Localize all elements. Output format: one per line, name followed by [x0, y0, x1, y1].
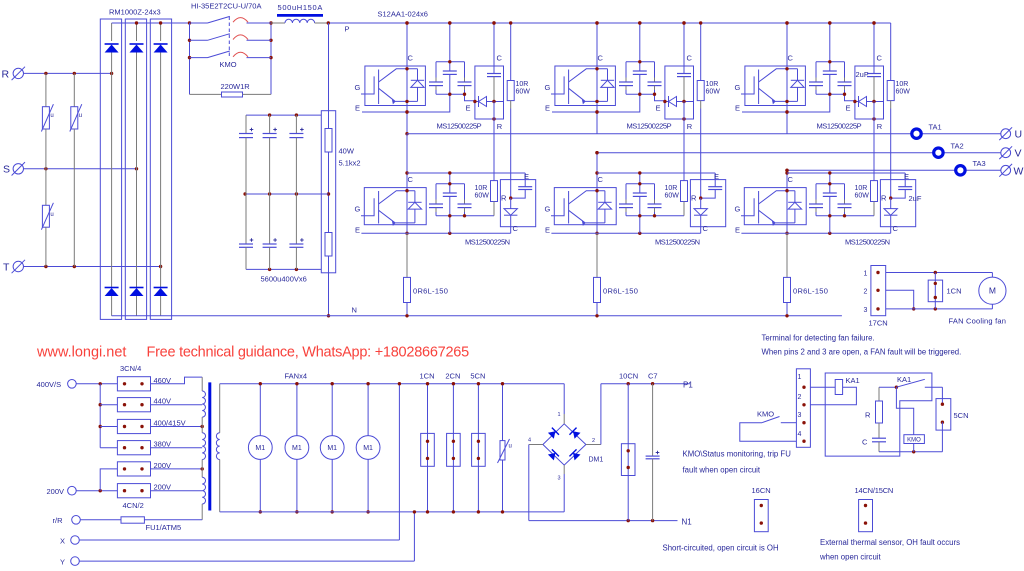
svg-text:C: C: [408, 54, 414, 63]
rectifier module D2 (RM1000Z-24): [125, 19, 146, 319]
svg-text:N1: N1: [682, 518, 693, 527]
tap connector 3CN row 380V: [117, 441, 150, 455]
capacitor C5 electrolytic lower 5600u400V: [269, 194, 271, 244]
svg-text:2: 2: [864, 288, 868, 295]
svg-text:C: C: [497, 54, 503, 63]
wire X riser: [398, 384, 400, 540]
wire 17CN pin2 jumper: [886, 290, 914, 309]
svg-text:5CN: 5CN: [954, 411, 969, 420]
svg-text:2CN: 2CN: [445, 372, 460, 381]
wire 440V tap: [151, 404, 203, 406]
wire fan bottom rail: [220, 511, 565, 513]
wire emitter rail lower cell U: [361, 232, 510, 234]
fan motor M1 number 3: [331, 384, 333, 436]
svg-text:T: T: [3, 262, 10, 274]
svg-text:3: 3: [864, 307, 868, 314]
status loop wire: [825, 373, 932, 456]
svg-text:1: 1: [798, 374, 802, 381]
wire RC bottom rail: [879, 451, 942, 453]
svg-text:M1: M1: [255, 445, 265, 452]
svg-text:E: E: [355, 226, 360, 235]
svg-text:1: 1: [864, 271, 868, 278]
varistor RU1 between R and S: [45, 73, 47, 106]
svg-text:E: E: [545, 104, 550, 113]
contactor KM0 right column wire: [270, 23, 272, 94]
svg-text:2: 2: [592, 438, 595, 444]
wire capacitor bank middle rail: [245, 193, 328, 195]
svg-text:External thermal sensor, OH fa: External thermal sensor, OH fault occurs: [820, 538, 960, 547]
svg-text:www.longi.net: www.longi.net: [36, 345, 126, 361]
bridge pin 1 wire: [563, 384, 565, 414]
RCD snubber module upper cell V: [665, 66, 694, 119]
terminal V: [1001, 148, 1011, 158]
transformer T1 primary winding: [201, 377, 203, 391]
wire R column cell U: [493, 102, 495, 181]
svg-text:HI-35E2T2CU-U/70A: HI-35E2T2CU-U/70A: [191, 2, 261, 11]
contactor KM0 pole 1: [190, 22, 208, 24]
wire T phase: [24, 266, 161, 268]
wire R column cell V: [683, 102, 685, 181]
svg-text:E: E: [355, 104, 360, 113]
balance resistor assembly 40W 5.1kx2: [321, 111, 335, 273]
resistor 0R6L-150 cell W: [786, 233, 788, 277]
varistor RU3 between S and T: [45, 169, 47, 206]
wire Y riser: [413, 512, 415, 561]
wire P1 rail: [601, 383, 690, 385]
svg-text:P1: P1: [683, 381, 693, 390]
svg-text:TA3: TA3: [973, 159, 986, 168]
svg-text:MS12500225N: MS12500225N: [465, 238, 510, 247]
svg-text:10R: 10R: [665, 185, 678, 192]
svg-text:C: C: [598, 175, 604, 184]
svg-text:C: C: [513, 224, 519, 233]
wire 200V tap upper: [151, 468, 203, 470]
svg-text:TA1: TA1: [929, 123, 942, 132]
wire 200V tap lower: [151, 490, 203, 492]
svg-text:N: N: [352, 306, 357, 315]
svg-text:60W: 60W: [665, 193, 680, 200]
svg-text:R: R: [881, 194, 887, 203]
wire rectifier top rail: [112, 22, 190, 24]
svg-text:10R: 10R: [855, 185, 868, 192]
resistor 220W1R precharge: [190, 93, 222, 95]
wire 17CN pin1 to fan: [886, 272, 993, 274]
svg-text:C7: C7: [648, 372, 658, 381]
svg-text:r/R: r/R: [53, 516, 64, 525]
svg-text:R: R: [2, 69, 10, 81]
wire 400/415V tap: [151, 426, 203, 428]
svg-text:60W: 60W: [475, 193, 490, 200]
connector 1CN: [934, 273, 936, 309]
resistor 10R 60W upper cell V: [700, 23, 702, 81]
svg-text:60W: 60W: [855, 193, 870, 200]
wire capacitor bank top rail: [246, 114, 321, 116]
svg-text:U: U: [1015, 129, 1023, 141]
svg-text:When pins 2 and 3 are open, a: When pins 2 and 3 are open, a FAN fault …: [762, 348, 962, 357]
wire emitter rail lower cell V: [551, 232, 700, 234]
relay coil KA1: [810, 386, 835, 388]
wire capacitor bank bottom rail: [246, 268, 321, 270]
svg-text:3: 3: [798, 412, 802, 419]
svg-text:R: R: [877, 122, 883, 131]
current transformer TA1: [912, 129, 921, 138]
svg-text:17CN: 17CN: [869, 319, 888, 328]
RCD snubber module lower cell U: [500, 180, 535, 227]
snubber capacitors upper cell U: [436, 61, 465, 63]
IGBT module Q2 upper MS12500225P (V phase): [555, 66, 616, 106]
rectifier module D1 (RM1000Z-24): [100, 19, 121, 319]
svg-text:X: X: [60, 537, 65, 546]
fuse FU1/ATM5: [80, 519, 121, 521]
varistor RU2 between R and T: [73, 73, 75, 106]
resistor 10R 60W lower cell W: [873, 119, 875, 181]
snubber capacitors lower cell V: [639, 173, 641, 193]
IGBT module Q6 lower MS12500225N (W phase): [744, 188, 806, 225]
svg-text:DM1: DM1: [589, 457, 604, 464]
wire R column cell W: [873, 102, 875, 181]
wire collector column lower Q5: [596, 153, 598, 234]
svg-text:10R: 10R: [475, 185, 488, 192]
svg-text:1CN: 1CN: [420, 372, 435, 381]
svg-text:E: E: [466, 104, 471, 113]
transformer T1 core: [208, 382, 211, 510]
terminal W: [1001, 165, 1011, 175]
svg-text:MS12500225N: MS12500225N: [845, 238, 890, 247]
svg-text:R: R: [687, 122, 693, 131]
current transformer TA3: [956, 166, 965, 175]
connector 4-pin status: [796, 369, 810, 448]
svg-text:MS12500225P: MS12500225P: [437, 122, 482, 131]
wire collector column upper Q2: [596, 23, 598, 134]
thermistor RT1: [502, 384, 504, 441]
svg-text:M1: M1: [327, 445, 337, 452]
svg-text:G: G: [355, 205, 361, 214]
bridge pin 2 wire: [586, 444, 601, 446]
svg-text:MS12500225P: MS12500225P: [627, 122, 672, 131]
contactor KM0 left column wire: [189, 23, 191, 94]
contactor KM0 pole 2: [190, 39, 208, 41]
svg-text:5CN: 5CN: [470, 372, 485, 381]
svg-text:Y: Y: [60, 558, 65, 567]
svg-text:C: C: [598, 54, 604, 63]
svg-text:u: u: [79, 113, 82, 119]
svg-text:M1: M1: [363, 445, 373, 452]
bridge pin 3 wire: [563, 465, 565, 474]
svg-text:E: E: [524, 172, 529, 181]
wire emitter rail lower cell W: [741, 232, 890, 234]
wire V phase rail: [597, 152, 1001, 154]
svg-text:4CN/2: 4CN/2: [123, 501, 144, 510]
wire U phase rail: [407, 133, 1001, 135]
svg-text:G: G: [545, 205, 551, 214]
svg-text:4: 4: [528, 438, 531, 444]
svg-text:E: E: [656, 104, 661, 113]
svg-text:40W: 40W: [339, 147, 355, 156]
wire collector rail lower cell U: [407, 172, 525, 174]
svg-text:2uF: 2uF: [909, 194, 922, 203]
svg-text:E: E: [714, 172, 719, 181]
svg-text:KA1: KA1: [897, 375, 911, 384]
RCD snubber module lower cell W: [880, 180, 915, 227]
svg-text:P: P: [345, 25, 350, 34]
svg-text:60W: 60W: [706, 89, 721, 96]
svg-text:FAN Cooling fan: FAN Cooling fan: [949, 317, 1007, 326]
IGBT module Q1 upper MS12500225P (U phase): [365, 66, 426, 106]
capacitor C1 electrolytic upper 5600u400V: [245, 115, 247, 133]
tap connector 3CN row 460V: [117, 377, 150, 391]
svg-text:0R6L-150: 0R6L-150: [793, 287, 828, 296]
terminal U: [1001, 129, 1011, 139]
wire 380V tap: [151, 447, 203, 449]
wire fan top rail: [220, 383, 565, 385]
connector 17CN: [871, 266, 886, 316]
wire collector rail lower cell W: [787, 172, 905, 174]
svg-text:R: R: [691, 194, 697, 203]
resistor 0R6L-150 cell U: [406, 233, 408, 277]
svg-text:G: G: [735, 205, 741, 214]
svg-text:TA2: TA2: [951, 142, 964, 151]
IGBT module Q3 upper MS12500225P (W phase): [745, 66, 806, 106]
svg-text:KMO: KMO: [220, 60, 237, 69]
wire P rail (DC+): [328, 22, 890, 24]
contactor KM0 pole 3: [190, 57, 208, 59]
svg-text:E: E: [735, 104, 740, 113]
svg-text:10R: 10R: [706, 81, 719, 88]
wire emitter upper Q1: [362, 94, 450, 112]
svg-text:KMO: KMO: [907, 437, 921, 443]
resistor R snubber relay: [878, 387, 880, 401]
fan motor M1 number 2: [296, 384, 298, 436]
connector 5CN relay: [936, 399, 951, 431]
relay contact KA1: [879, 386, 896, 388]
capacitor C6 electrolytic lower 5600u400V: [295, 194, 297, 244]
tap connector 3CN row 200V: [117, 484, 150, 498]
svg-text:C: C: [788, 175, 794, 184]
svg-text:MS12500225N: MS12500225N: [655, 238, 700, 247]
wire collector rail lower cell V: [597, 172, 715, 174]
wire R phase: [24, 72, 112, 74]
svg-text:E: E: [545, 226, 550, 235]
contact block KM0: [904, 435, 925, 444]
junction dots on P rail: [405, 21, 408, 24]
svg-text:10R: 10R: [896, 81, 909, 88]
svg-text:u: u: [50, 113, 53, 119]
svg-text:KA1: KA1: [846, 376, 860, 385]
wire collector column upper Q1: [406, 23, 408, 134]
wire contact to KM0 box: [896, 387, 913, 435]
tap connector 3CN row 400/415V: [117, 419, 150, 433]
wire collector column lower Q6: [786, 170, 788, 233]
wire collector column lower Q4: [406, 134, 408, 234]
wire N1 rail: [529, 520, 678, 522]
svg-text:1: 1: [558, 412, 561, 418]
svg-text:400V/S: 400V/S: [37, 380, 62, 389]
svg-text:220W1R: 220W1R: [221, 82, 251, 91]
RCD snubber module lower cell V: [690, 180, 725, 227]
svg-text:S: S: [3, 164, 10, 176]
svg-text:Short-circuited, open circuit: Short-circuited, open circuit is OH: [663, 544, 779, 553]
svg-text:V: V: [1015, 148, 1022, 160]
svg-text:3: 3: [558, 476, 561, 482]
svg-text:60W: 60W: [516, 89, 531, 96]
wire 17CN pin3 to fan: [886, 308, 993, 310]
svg-text:G: G: [355, 83, 361, 92]
svg-text:u: u: [50, 212, 53, 218]
capacitor C4 electrolytic lower 5600u400V: [245, 194, 247, 244]
capacitor C snubber relay: [872, 437, 886, 439]
svg-text:0R6L-150: 0R6L-150: [603, 287, 638, 296]
svg-text:R: R: [501, 194, 507, 203]
wire S phase: [24, 168, 137, 170]
resistor 10R 60W lower cell U: [493, 119, 495, 181]
svg-text:10R: 10R: [516, 81, 529, 88]
snubber capacitors upper cell V: [626, 61, 655, 63]
wire collector column upper Q3: [786, 23, 788, 134]
svg-text:200V: 200V: [47, 487, 65, 496]
svg-text:4: 4: [798, 431, 802, 438]
svg-text:1CN: 1CN: [947, 287, 962, 296]
svg-text:W: W: [1014, 165, 1024, 177]
svg-text:fault when open circuit: fault when open circuit: [683, 466, 761, 475]
svg-text:16CN: 16CN: [752, 486, 771, 495]
capacitor C3 electrolytic upper 5600u400V: [295, 115, 297, 133]
svg-text:500uH150A: 500uH150A: [278, 3, 323, 12]
svg-text:R: R: [497, 122, 503, 131]
svg-text:C: C: [408, 175, 414, 184]
svg-text:C: C: [687, 54, 693, 63]
resistor 10R 60W lower cell V: [683, 119, 685, 181]
svg-text:2uF: 2uF: [856, 70, 869, 79]
svg-text:G: G: [735, 83, 741, 92]
wire emitter upper Q3: [742, 94, 830, 112]
svg-text:S12AA1-024x6: S12AA1-024x6: [378, 10, 428, 19]
svg-text:0R6L-150: 0R6L-150: [413, 287, 448, 296]
inductor L1 500uH150A: [271, 22, 285, 24]
transformer T1 secondary winding: [219, 384, 221, 433]
svg-text:G: G: [545, 83, 551, 92]
svg-text:when open circuit: when open circuit: [819, 553, 882, 562]
svg-text:E: E: [846, 104, 851, 113]
svg-text:5.1kx2: 5.1kx2: [339, 159, 361, 168]
snubber capacitors lower cell U: [449, 173, 451, 193]
wire 200V input: [76, 490, 117, 492]
wire 400V/S input: [76, 383, 117, 385]
svg-text:RM1000Z-24x3: RM1000Z-24x3: [109, 8, 161, 17]
svg-text:M: M: [989, 286, 996, 296]
snubber capacitors upper cell W: [816, 61, 845, 63]
svg-text:E: E: [735, 226, 740, 235]
resistor 10R 60W upper cell U: [510, 23, 512, 81]
svg-text:60W: 60W: [896, 89, 911, 96]
svg-text:KMO: KMO: [757, 410, 774, 419]
svg-text:u: u: [509, 444, 512, 450]
svg-text:C: C: [862, 438, 868, 447]
IGBT module Q4 lower MS12500225N (U phase): [364, 188, 426, 225]
svg-text:MS12500225P: MS12500225P: [817, 122, 862, 131]
wire 460V tap: [151, 377, 203, 384]
RCD snubber module upper cell U: [475, 66, 504, 119]
svg-text:3CN/4: 3CN/4: [120, 364, 141, 373]
diode bridge DM1: [543, 424, 586, 465]
svg-text:C: C: [703, 224, 709, 233]
svg-text:M1: M1: [292, 445, 302, 452]
rectifier module D3 (RM1000Z-24): [150, 19, 171, 319]
wire emitter upper Q2: [552, 94, 640, 112]
svg-text:FANx4: FANx4: [285, 372, 308, 381]
resistor 0R6L-150 cell V: [596, 233, 598, 277]
RCD snubber module upper cell W: [855, 66, 884, 119]
capacitor C2 electrolytic upper 5600u400V: [269, 115, 271, 133]
svg-text:Terminal for detecting fan fai: Terminal for detecting fan failure.: [762, 334, 875, 343]
IGBT module Q5 lower MS12500225N (V phase): [554, 188, 616, 225]
svg-text:KMO\Status monitoring, trip FU: KMO\Status monitoring, trip FU: [683, 450, 792, 459]
svg-text:2: 2: [798, 394, 802, 401]
resistor 10R 60W upper cell W: [890, 23, 892, 81]
bridge pin 4 wire: [529, 444, 543, 446]
snubber capacitors lower cell W: [829, 173, 831, 193]
fan motor M1 number 1: [259, 384, 261, 436]
svg-text:Free technical guidance, Whats: Free technical guidance, WhatsApp: +1802…: [147, 345, 470, 361]
tap connector 3CN row 440V: [117, 398, 150, 412]
contactor KM0 linkage dashed: [228, 17, 230, 57]
fan motor M1 number 4: [367, 384, 369, 436]
svg-text:14CN/15CN: 14CN/15CN: [855, 486, 894, 495]
motor M cooling fan: [991, 273, 993, 278]
svg-text:FU1/ATM5: FU1/ATM5: [146, 523, 182, 532]
wire W phase rail: [787, 169, 1001, 171]
svg-text:C: C: [877, 54, 883, 63]
wire N rail (DC-): [112, 315, 842, 317]
svg-text:E: E: [904, 172, 909, 181]
svg-text:10CN: 10CN: [619, 372, 638, 381]
svg-text:C: C: [788, 54, 794, 63]
tap connector 3CN row 200V: [117, 462, 150, 476]
svg-text:C: C: [893, 224, 899, 233]
svg-text:R: R: [865, 411, 871, 420]
current transformer TA2: [934, 148, 943, 157]
svg-text:5600u400Vx6: 5600u400Vx6: [261, 275, 307, 284]
